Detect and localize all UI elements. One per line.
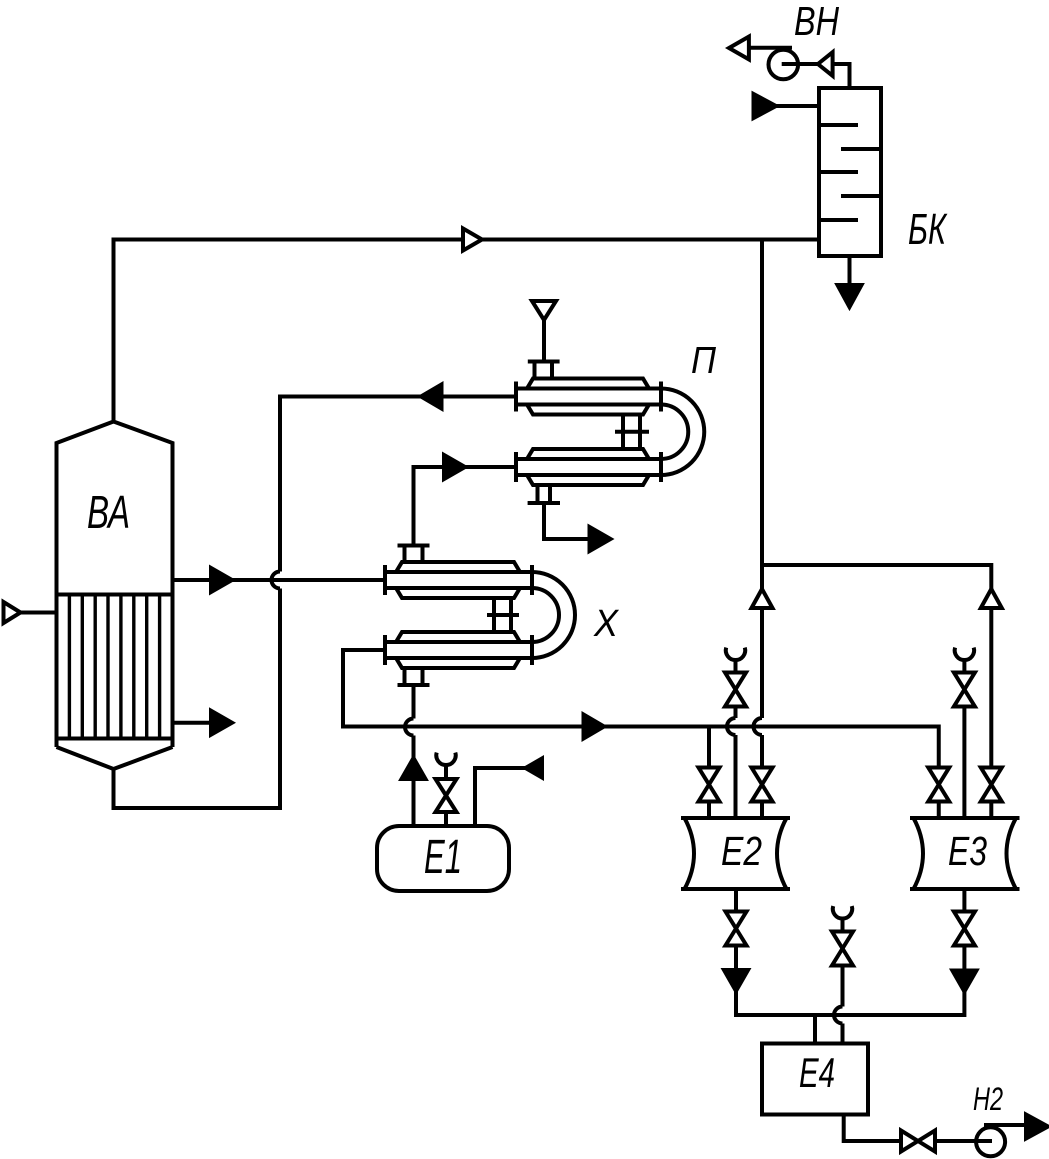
open arrow BA inlet bbox=[4, 602, 21, 623]
exchanger X lower shell covers bbox=[396, 632, 520, 642]
valve on E3 vent bbox=[954, 673, 975, 707]
vessel BA tube hatching bbox=[69, 595, 159, 739]
vessel BA tube section divider bbox=[57, 593, 173, 597]
valve on E3 bottom bbox=[954, 912, 975, 946]
wire: E2/E3 bottoms to E4 manifold bbox=[736, 889, 964, 1015]
exchanger X lower flanges bbox=[385, 635, 532, 665]
open arrow on overhead line bbox=[463, 229, 482, 251]
filled down arrow on E2 bottom bbox=[724, 970, 748, 991]
funnel vent above E4 bbox=[833, 906, 852, 918]
open up arrow on branch bbox=[752, 589, 773, 608]
vessel E3 top/bottom bbox=[910, 818, 1020, 889]
valve on pump suction (horizontal) bbox=[901, 1131, 935, 1152]
wire: E2 left valve drop bbox=[707, 727, 711, 819]
vessel E2 concave sides bbox=[685, 818, 787, 889]
wire: BA bottom loop up to exchanger P bbox=[114, 589, 281, 809]
filled arrow on P bottom outlet bbox=[590, 527, 611, 551]
exchanger P upper flanges bbox=[516, 382, 661, 412]
exchanger P upper shell covers bbox=[527, 379, 649, 389]
exchanger P top nozzle bbox=[528, 362, 560, 379]
valve on E2 right drop bbox=[752, 768, 773, 802]
column BK trays bbox=[819, 125, 881, 220]
valve on E2 bottom bbox=[726, 912, 747, 946]
wire: BK feed with filled arrow bbox=[775, 104, 819, 108]
exchanger X top nozzle bbox=[398, 546, 430, 563]
wire: P lower inlet from X bbox=[414, 467, 517, 544]
filled down arrow on E3 bottom bbox=[952, 971, 976, 992]
wire: pump discharge bbox=[984, 1123, 1027, 1127]
pump N2 circle bbox=[976, 1127, 1005, 1156]
wire: suction into pump VN bbox=[782, 62, 818, 66]
svg-text:Е1: Е1 bbox=[424, 831, 462, 884]
filled arrow on BA upper outlet bbox=[211, 568, 232, 592]
wire: E1 center vent line bbox=[444, 765, 448, 828]
exchanger X upper flanges bbox=[385, 565, 532, 595]
exchanger P U-bend inner bbox=[661, 405, 688, 460]
wire: X lower outlet manifold to E2/E3 bbox=[343, 650, 939, 768]
exchanger P upper shell band bbox=[516, 389, 661, 405]
svg-text:ВН: ВН bbox=[794, 0, 839, 44]
exchanger X U-bend outer bbox=[532, 572, 575, 658]
wire hop E2 vent over manifold bbox=[727, 718, 736, 735]
vessel BA bottom cone bbox=[57, 747, 173, 769]
filled arrow on BK feed bbox=[754, 94, 777, 118]
wire: vertical branch from overhead line down to E2 bbox=[760, 240, 764, 719]
svg-text:Е3: Е3 bbox=[948, 828, 987, 874]
filled down arrow on BK bottoms bbox=[838, 285, 862, 307]
filled arrow on manifold bbox=[584, 715, 605, 739]
wire: E1 right inlet bbox=[475, 768, 526, 828]
svg-text:БК: БК bbox=[908, 205, 947, 254]
wire: E2 vent line bbox=[734, 660, 738, 718]
exchanger P bottom nozzle bbox=[528, 485, 560, 503]
exchanger X support bbox=[487, 598, 519, 632]
open vent triangle on P bbox=[532, 301, 556, 320]
wire: BA lower side outlet bbox=[173, 721, 213, 725]
wire hop E4 vent over bottom manifold bbox=[834, 1007, 843, 1024]
exchanger P lower shell band bbox=[516, 459, 661, 475]
svg-text:Е4: Е4 bbox=[799, 1049, 835, 1096]
valve on E2 left drop bbox=[699, 768, 720, 802]
wire: BK bottoms outlet bbox=[848, 256, 852, 286]
wire hop at x280 over y580 line bbox=[272, 572, 281, 589]
filled left arrow on E1 inlet bbox=[526, 759, 543, 778]
valve on E2 vent bbox=[725, 673, 746, 707]
valve on E3 left drop bbox=[928, 768, 949, 802]
funnel vent above E3 bbox=[955, 648, 974, 660]
vessel E3 concave sides bbox=[914, 818, 1017, 889]
wire: E4 outlet to pump N2 bbox=[844, 1115, 975, 1142]
exchanger X upper shell covers bbox=[396, 562, 520, 572]
wire: BA upper outlet to X exchanger bbox=[173, 578, 386, 582]
exchanger X upper shell band bbox=[385, 572, 532, 588]
wire: branch to E3 right line bbox=[762, 565, 991, 818]
vessel E4 bbox=[762, 1044, 868, 1115]
wire: BA overhead to BK column bbox=[114, 240, 820, 421]
exchanger P support bbox=[615, 415, 649, 450]
wire: P vent pipe bbox=[542, 320, 546, 360]
filled arrow on BA lower outlet bbox=[211, 711, 232, 735]
exchanger X lower shell band bbox=[385, 642, 532, 658]
svg-text:Е2: Е2 bbox=[721, 828, 762, 874]
wire: P bottom outlet bbox=[544, 505, 590, 539]
vessel BA outline bbox=[57, 422, 173, 748]
svg-text:Н2: Н2 bbox=[973, 1081, 1003, 1117]
valve on E3 right drop bbox=[981, 768, 1002, 802]
wire: E3 left drop lower part bbox=[937, 802, 941, 819]
column BK shell bbox=[819, 88, 881, 256]
svg-text:П: П bbox=[691, 340, 716, 382]
vessel E1 bbox=[377, 826, 509, 891]
wire: pump suction stub bbox=[974, 1139, 992, 1143]
filled up arrow on E1 riser bbox=[402, 758, 426, 779]
open up arrow on E3 right line bbox=[981, 589, 1002, 608]
exchanger P lower shell covers bbox=[527, 449, 649, 459]
wire hop over manifold at x762 bbox=[754, 718, 763, 735]
valve on E4 vent bbox=[832, 932, 853, 966]
wire: VN discharge bbox=[749, 46, 792, 50]
exchanger P U-bend outer bbox=[661, 389, 704, 476]
filled left arrow on P return line bbox=[421, 385, 442, 409]
wire: E4 left inlet bbox=[813, 1015, 817, 1044]
open left arrow on BK overhead bbox=[818, 52, 833, 76]
funnel vent above E1 valve bbox=[436, 753, 455, 765]
pump VN circle bbox=[769, 50, 799, 80]
svg-text:ВА: ВА bbox=[87, 486, 130, 538]
wire: X bottom to E1 bbox=[412, 687, 416, 719]
exchanger X bottom nozzle bbox=[398, 668, 430, 685]
wire: BA side inlet bbox=[20, 611, 57, 615]
filled arrow on P lower inlet bbox=[444, 455, 465, 479]
vessel E2 top/bottom bbox=[681, 818, 790, 889]
wire hop over manifold at x413.5 bbox=[405, 719, 414, 736]
funnel vent above E2 bbox=[726, 648, 745, 660]
wire: E3 vent line bbox=[962, 660, 966, 818]
svg-text:Х: Х bbox=[593, 603, 619, 645]
wire: E4 vent line bbox=[841, 918, 845, 1006]
vessel BA tube bottom line bbox=[57, 737, 173, 741]
valve above E1 bbox=[436, 779, 457, 812]
wire: BK overhead bbox=[833, 64, 850, 88]
exchanger X U-bend inner bbox=[532, 588, 559, 642]
exchanger P lower flanges bbox=[516, 452, 661, 482]
filled arrow on pump discharge bbox=[1026, 1115, 1048, 1139]
open left arrow on VN discharge bbox=[729, 37, 749, 60]
